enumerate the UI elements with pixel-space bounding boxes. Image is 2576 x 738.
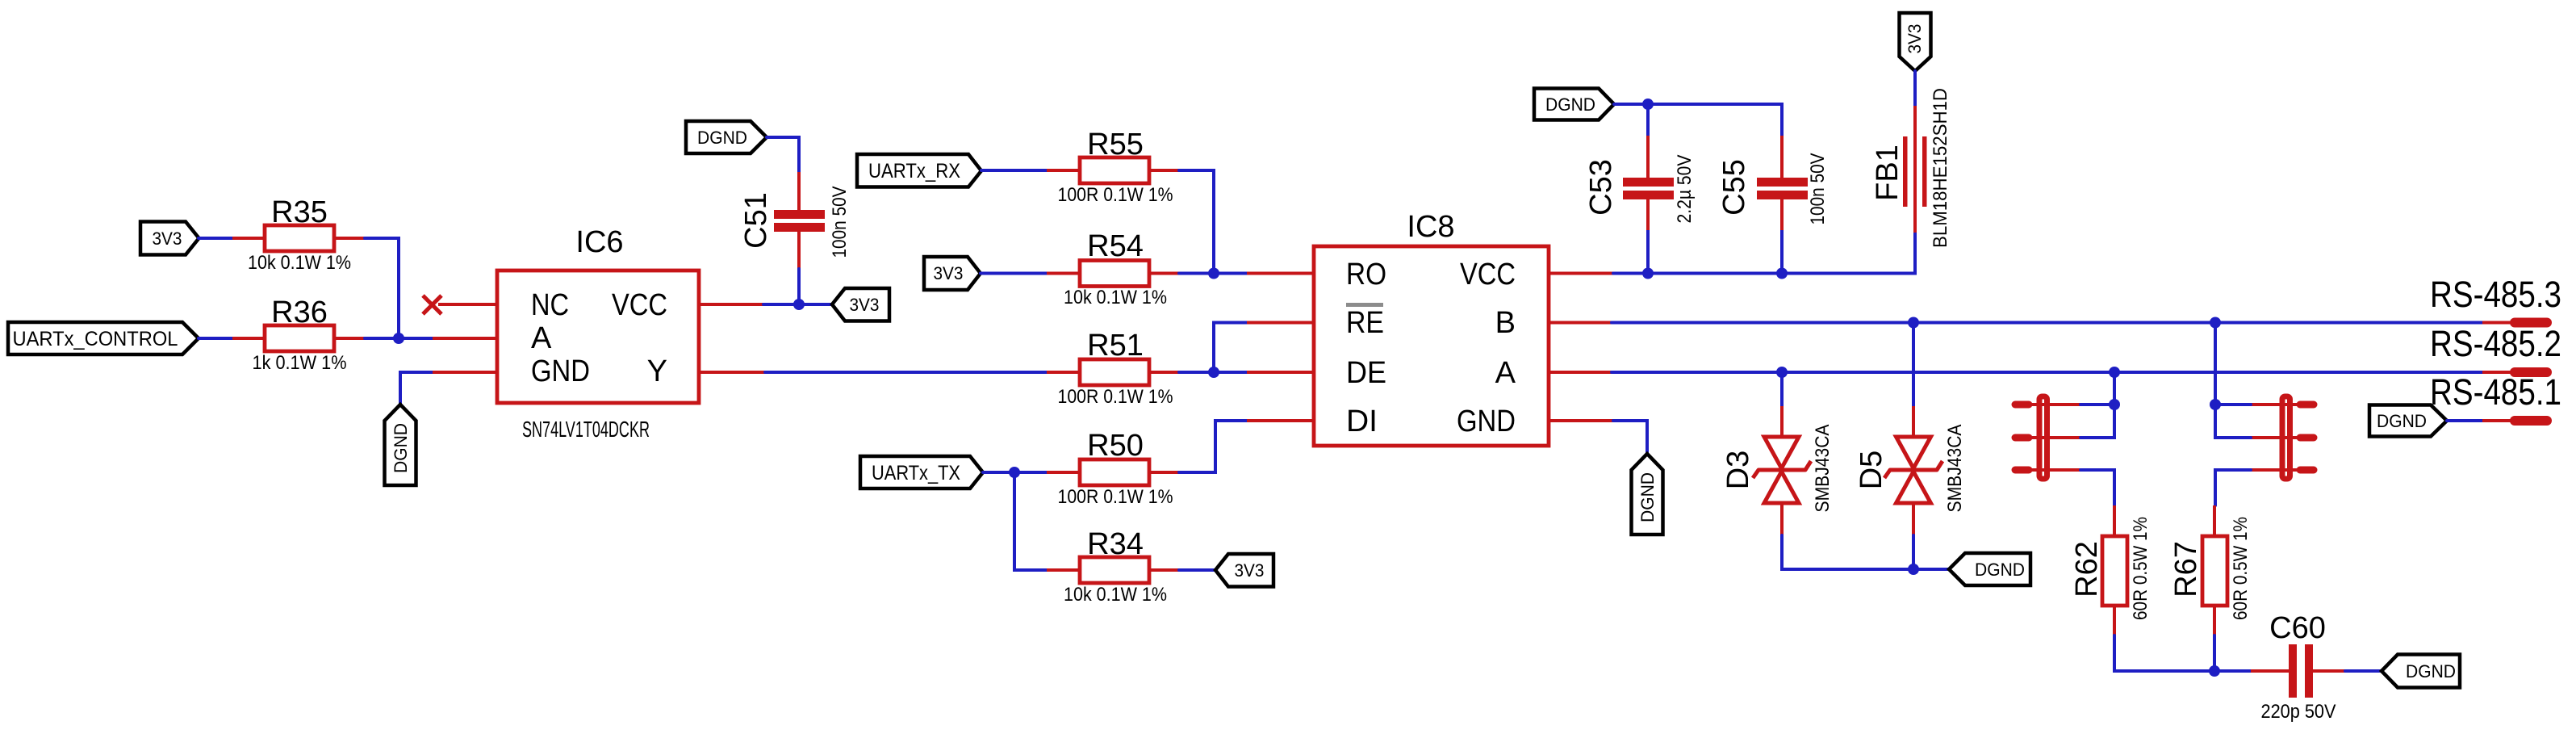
svg-text:VCC: VCC xyxy=(612,288,667,322)
svg-text:100R 0.1W 1%: 100R 0.1W 1% xyxy=(1058,386,1173,408)
wire A line xyxy=(1612,371,2482,374)
svg-text:3V3: 3V3 xyxy=(153,229,182,249)
svg-text:3V3: 3V3 xyxy=(934,263,964,283)
inverter IC6 xyxy=(497,225,699,442)
ferrite bead FB1 xyxy=(1871,88,1951,248)
wire Y to R51 xyxy=(765,371,1047,374)
wire A to D3 xyxy=(1780,372,1784,406)
wire DGND rail to C53 C55 xyxy=(1614,104,1782,274)
svg-text:R54: R54 xyxy=(1087,229,1144,263)
node B junctions xyxy=(1908,317,1919,329)
svg-text:R67: R67 xyxy=(2169,541,2203,598)
svg-text:10k 0.1W 1%: 10k 0.1W 1% xyxy=(1064,584,1167,606)
power flag 3V3 (FB1) xyxy=(1900,13,1931,71)
wire R36 to IC6 pin A xyxy=(365,337,433,340)
svg-text:R51: R51 xyxy=(1087,329,1144,363)
svg-text:DGND: DGND xyxy=(2406,661,2456,681)
wire SG2 connections xyxy=(2215,405,2251,505)
resistor R67 xyxy=(2169,505,2252,635)
svg-text:R62: R62 xyxy=(2070,541,2104,598)
ground flag DGND (D5) xyxy=(1949,553,2030,585)
transceiver IC8 xyxy=(1314,210,1549,446)
node SG2 junction xyxy=(2210,399,2221,410)
TVS diode D5 xyxy=(1855,406,1966,535)
surge arrester SG2 stubs xyxy=(2300,405,2314,470)
svg-text:C60: C60 xyxy=(2269,611,2326,645)
svg-text:RO: RO xyxy=(1346,258,1386,291)
resistor R34 xyxy=(1047,527,1179,606)
resistor R35 xyxy=(232,195,365,274)
svg-text:60R 0.5W 1%: 60R 0.5W 1% xyxy=(2230,517,2252,620)
wire UARTx_RX to R55 xyxy=(981,169,1047,172)
svg-text:UARTx_CONTROL: UARTx_CONTROL xyxy=(13,328,178,350)
wire A to SG1 xyxy=(2113,372,2116,405)
wire R51 to IC8 DE xyxy=(1179,371,1247,374)
surge arrester SG1 pins xyxy=(2014,405,2080,470)
power flag 3V3 (R34) xyxy=(1215,554,1273,587)
svg-text:VCC: VCC xyxy=(1460,258,1516,291)
power flag 3V3 (left) xyxy=(140,222,199,255)
svg-text:100n 50V: 100n 50V xyxy=(829,187,851,258)
wire R54 to IC8 RO xyxy=(1179,272,1247,275)
svg-text:10k 0.1W 1%: 10k 0.1W 1% xyxy=(1064,287,1167,308)
wire UARTx_TX to R50 xyxy=(983,471,1047,474)
node TX junction xyxy=(1009,467,1020,478)
capacitor C51 xyxy=(739,172,851,269)
svg-text:RS-485.3: RS-485.3 xyxy=(2430,274,2561,315)
svg-text:DE: DE xyxy=(1346,356,1386,390)
wire B to D5 xyxy=(1912,323,1915,407)
svg-text:3V3: 3V3 xyxy=(1235,560,1265,581)
svg-text:DGND: DGND xyxy=(1975,560,2025,580)
svg-text:IC8: IC8 xyxy=(1407,210,1454,244)
IC8 pins xyxy=(1247,274,1613,421)
svg-text:DGND: DGND xyxy=(697,128,747,148)
resistor R51 xyxy=(1047,329,1179,408)
svg-text:C53: C53 xyxy=(1584,159,1618,216)
resistor R54 xyxy=(1047,229,1179,308)
svg-text:60R 0.5W 1%: 60R 0.5W 1% xyxy=(2130,517,2152,620)
capacitor C55 xyxy=(1717,136,1829,230)
wire R55 to RO node xyxy=(1179,170,1214,274)
svg-text:D5: D5 xyxy=(1855,451,1888,490)
wire VCC IC6 to 3V3 xyxy=(763,303,832,306)
no-connect X on IC6 NC pin xyxy=(423,296,441,314)
svg-text:R36: R36 xyxy=(271,296,328,329)
wire D3 D5 to DGND xyxy=(1782,535,1949,569)
svg-text:SMBJ43CA: SMBJ43CA xyxy=(1812,425,1834,513)
resistor R55 xyxy=(1047,128,1179,206)
ground flag DGND (C60) xyxy=(2382,655,2460,688)
wire TX node to R34 xyxy=(1014,472,1047,570)
wire R62 R67 to C60 xyxy=(2114,635,2251,671)
wire UARTx_CONTROL to R36 xyxy=(199,337,232,340)
ground flag DGND (C51) xyxy=(686,121,767,153)
svg-text:A: A xyxy=(531,321,552,355)
wire DGND to RS-485.1 stub xyxy=(2447,419,2482,422)
svg-text:D3: D3 xyxy=(1721,451,1755,490)
wire B end stub xyxy=(2482,321,2512,325)
wire C51 to VCC node xyxy=(797,269,801,304)
node DGND junction xyxy=(1908,564,1919,575)
surge arrester SG2 pins xyxy=(2251,405,2313,470)
svg-text:C55: C55 xyxy=(1717,159,1751,216)
wire IC8 GND to DGND xyxy=(1613,421,1647,454)
label UARTx_TX xyxy=(860,456,983,489)
node VCC junctions xyxy=(1642,268,1654,279)
wire R35 to node A xyxy=(365,238,399,338)
TVS diode D3 xyxy=(1721,406,1834,535)
svg-text:2.2µ 50V: 2.2µ 50V xyxy=(1674,155,1696,224)
label UARTx_CONTROL xyxy=(8,322,199,354)
node DE junction xyxy=(1208,367,1219,378)
svg-text:3V3: 3V3 xyxy=(850,295,880,315)
svg-text:100n 50V: 100n 50V xyxy=(1807,153,1829,225)
node A junction xyxy=(393,333,404,344)
svg-text:3V3: 3V3 xyxy=(1905,24,1925,54)
IC6 pins xyxy=(433,304,765,372)
wire A end stub xyxy=(2482,371,2512,374)
wire C60 to DGND xyxy=(2345,669,2382,673)
capacitor C60 xyxy=(2251,611,2345,723)
wire 3V3 to FB1 xyxy=(1913,71,1917,106)
ground flag DGND (IC6) xyxy=(385,405,416,485)
capacitor C53 xyxy=(1584,136,1696,230)
node RO junction xyxy=(1208,268,1219,279)
svg-text:UARTx_RX: UARTx_RX xyxy=(868,160,960,182)
resistor R62 xyxy=(2070,505,2152,635)
wire SG1 connections xyxy=(2080,405,2114,505)
svg-text:220p 50V: 220p 50V xyxy=(2261,701,2336,723)
svg-text:DGND: DGND xyxy=(391,423,411,473)
ground flag DGND (C53) xyxy=(1534,89,1614,120)
svg-text:1k 0.1W 1%: 1k 0.1W 1% xyxy=(253,352,347,374)
svg-text:IC6: IC6 xyxy=(575,225,623,259)
wire GND pin to DGND xyxy=(400,372,433,405)
svg-text:SN74LV1T04DCKR: SN74LV1T04DCKR xyxy=(522,417,650,442)
surge arrester SG2 xyxy=(2282,396,2290,479)
svg-text:B: B xyxy=(1495,306,1516,340)
wire B line xyxy=(1612,321,2482,325)
svg-text:10k 0.1W 1%: 10k 0.1W 1% xyxy=(248,252,351,274)
node A junctions xyxy=(1776,367,1788,378)
node C60 junction xyxy=(2209,665,2220,677)
resistor R50 xyxy=(1047,429,1179,508)
wire 3V3 to R54 xyxy=(981,272,1047,275)
svg-text:Y: Y xyxy=(647,354,667,388)
power flag 3V3 (R54) xyxy=(924,257,981,290)
power flag 3V3 (at IC6 VCC) xyxy=(832,288,889,321)
svg-text:RE: RE xyxy=(1346,306,1384,340)
svg-text:RS-485.2: RS-485.2 xyxy=(2430,323,2561,364)
svg-text:R34: R34 xyxy=(1087,527,1144,561)
svg-text:C51: C51 xyxy=(739,192,773,249)
svg-text:UARTx_TX: UARTx_TX xyxy=(872,462,960,484)
node VCC junction xyxy=(793,299,805,310)
wire B to SG2 xyxy=(2214,323,2217,405)
wire R34 to 3V3 xyxy=(1179,568,1215,572)
svg-text:A: A xyxy=(1495,356,1516,390)
wire DE node to RE xyxy=(1214,323,1247,373)
svg-text:FB1: FB1 xyxy=(1871,145,1905,201)
svg-text:RS-485.1: RS-485.1 xyxy=(2430,371,2561,413)
node DGND junction xyxy=(1642,99,1654,110)
svg-text:NC: NC xyxy=(531,288,569,322)
label UARTx_RX xyxy=(857,154,981,187)
wire 3V3 to R35 xyxy=(199,237,232,240)
svg-text:DGND: DGND xyxy=(2377,411,2427,431)
svg-text:SMBJ43CA: SMBJ43CA xyxy=(1944,425,1966,513)
svg-text:GND: GND xyxy=(531,354,590,388)
svg-text:BLM18HE152SH1D: BLM18HE152SH1D xyxy=(1930,88,1951,248)
svg-text:100R 0.1W 1%: 100R 0.1W 1% xyxy=(1058,184,1173,206)
svg-text:100R 0.1W 1%: 100R 0.1W 1% xyxy=(1058,486,1173,508)
svg-text:DGND: DGND xyxy=(1545,94,1595,115)
wire IC8 VCC rail xyxy=(1613,233,1915,274)
ground flag DGND (IC8) xyxy=(1632,454,1663,535)
ground flag DGND (RS-485.1) xyxy=(2369,405,2447,437)
surge arrester SG1 stubs xyxy=(2015,405,2029,470)
resistor R36 xyxy=(232,296,365,374)
svg-text:R35: R35 xyxy=(271,195,328,229)
node SG1 junction xyxy=(2109,399,2120,410)
svg-text:DI: DI xyxy=(1346,405,1378,438)
svg-text:DGND: DGND xyxy=(1637,472,1658,522)
wire R50 to IC8 DI xyxy=(1179,421,1247,472)
wire DGND to C51 xyxy=(767,137,799,172)
svg-text:R55: R55 xyxy=(1087,128,1144,161)
surge arrester SG1 xyxy=(2039,396,2047,479)
svg-text:R50: R50 xyxy=(1087,429,1144,463)
svg-text:GND: GND xyxy=(1457,405,1516,438)
